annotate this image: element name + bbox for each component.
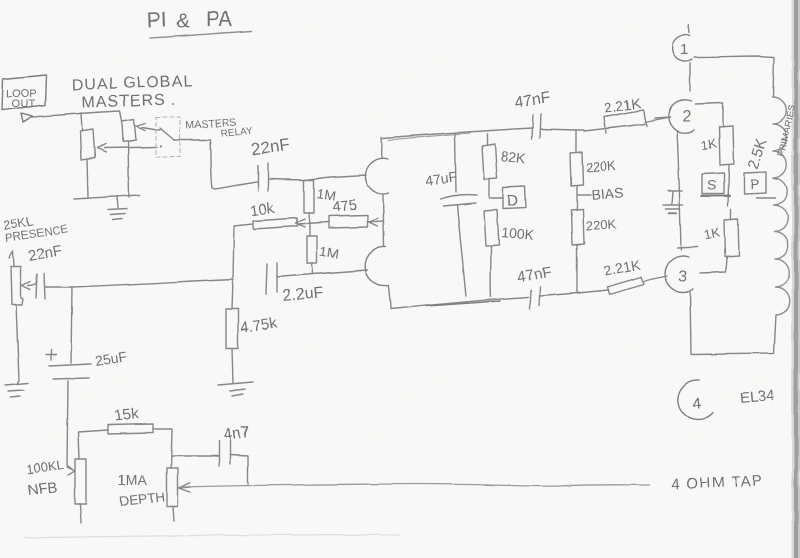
PI tail between triodes xyxy=(383,195,384,246)
label 4 OHM TAP xyxy=(671,473,765,493)
potentiometer master A xyxy=(80,129,95,160)
wire NFB pot bottom xyxy=(80,504,81,523)
svg-text:EL34: EL34 xyxy=(739,387,775,407)
tube V2 xyxy=(668,100,694,133)
pot 100KL NFB xyxy=(75,459,86,504)
cathode line tube2 to tube3 xyxy=(677,131,681,250)
svg-text:&: & xyxy=(176,11,190,33)
wire down to master pot B xyxy=(120,111,122,121)
wire 475 to PI tail xyxy=(368,221,383,222)
svg-text:PI: PI xyxy=(146,8,167,32)
label MASTERS RELAY xyxy=(185,116,253,140)
wire 47nF to 2.21k lower xyxy=(540,290,608,296)
wiper arrow presence xyxy=(22,281,36,289)
capacitor 2.2uF xyxy=(266,263,277,294)
resistor 475 xyxy=(329,215,368,228)
svg-text:S: S xyxy=(707,177,716,193)
capacitor 47nF top xyxy=(532,114,541,139)
resistor 1M upper xyxy=(304,180,314,213)
svg-text:PA: PA xyxy=(206,8,232,31)
box S xyxy=(702,173,724,194)
wire 2.21k to tube 2 xyxy=(645,117,670,122)
wire 15k left to NFB pot xyxy=(78,430,108,459)
capacitor 47uF column xyxy=(455,133,456,192)
wire 25uF to NFB pot xyxy=(67,381,68,465)
wire branch to 4n7 xyxy=(172,455,218,457)
arrowhead at 10k right xyxy=(296,219,305,227)
presence pot 25KL xyxy=(11,266,23,305)
wire loop out to pots xyxy=(33,111,120,117)
wire depth pot bottom xyxy=(173,507,174,521)
bias tap xyxy=(578,194,591,196)
wire 220k lower to bottom rail xyxy=(576,245,578,293)
title PI & PA xyxy=(146,8,232,33)
wire PI top rail xyxy=(382,128,533,138)
label EL34 xyxy=(739,387,775,407)
title underline xyxy=(150,31,252,38)
capacitor 25uF xyxy=(49,364,91,379)
svg-text:D: D xyxy=(507,193,519,210)
tube3 top tick xyxy=(677,247,698,248)
relay dashed box xyxy=(156,117,180,157)
wire cap to 1M node xyxy=(268,179,305,180)
relay contact dot xyxy=(160,145,162,147)
svg-text:3: 3 xyxy=(678,268,687,285)
wire 100k to bottom rail xyxy=(490,246,492,297)
transformer primary coil xyxy=(772,97,790,315)
capacitor 22nF presence xyxy=(36,274,45,299)
resistor 4.75k xyxy=(226,309,238,348)
ground PA xyxy=(663,192,683,213)
svg-text:2.2uF: 2.2uF xyxy=(282,284,324,305)
wire tube3 bottom loop xyxy=(690,291,776,354)
svg-text:MASTERS .: MASTERS . xyxy=(81,91,177,111)
phase inverter triode upper xyxy=(381,137,382,158)
wire presence cap to main node xyxy=(45,279,233,287)
svg-text:475: 475 xyxy=(332,196,359,216)
wire 2.21k to tube 3 xyxy=(644,276,667,281)
wire 4n7 to tap line xyxy=(230,455,248,484)
label PRIMARIES xyxy=(776,104,798,157)
pot 1MA depth xyxy=(167,468,178,507)
resistor 15k xyxy=(108,424,153,434)
wire grid tube2 xyxy=(655,117,670,118)
wire relay to coupling cap xyxy=(174,140,257,189)
label DUAL GLOBAL MASTERS xyxy=(72,73,195,112)
capacitor 25uF polarity plus xyxy=(46,350,56,360)
wire 2.2uF to lower grid xyxy=(277,270,368,277)
wire 10k to 475 node xyxy=(298,222,329,224)
svg-text:15k: 15k xyxy=(114,405,140,424)
svg-text:2: 2 xyxy=(682,108,691,125)
resistor 220k upper xyxy=(570,152,583,186)
label 25KL PRESENCE xyxy=(2,213,69,245)
relay switch xyxy=(160,128,174,140)
resistor 82k xyxy=(486,134,488,145)
wire tube3 plate to 1k lower xyxy=(700,257,727,273)
svg-text:4 OHM TAP: 4 OHM TAP xyxy=(671,473,765,493)
potentiometer master B xyxy=(122,119,136,142)
phase inverter triode lower xyxy=(365,247,389,286)
svg-text:BIAS: BIAS xyxy=(591,184,624,203)
wiper arrow to pot B xyxy=(136,123,160,130)
svg-text:NFB: NFB xyxy=(27,479,59,499)
tube V1 xyxy=(688,25,689,33)
wire node down to 4.75k xyxy=(232,279,233,309)
resistor 1k screen lower xyxy=(724,219,739,257)
loop out jack box xyxy=(2,75,46,110)
resistor 220k lower xyxy=(571,209,584,245)
svg-text:100K: 100K xyxy=(501,224,536,243)
ground masters xyxy=(108,196,127,220)
ground 4.75k xyxy=(218,382,253,396)
wire 82k to D node xyxy=(488,179,490,198)
diode box D xyxy=(489,197,503,199)
svg-text:4: 4 xyxy=(692,396,701,413)
resistor 1M lower xyxy=(307,236,317,263)
svg-text:P: P xyxy=(750,176,759,192)
wire 1k down xyxy=(728,165,731,219)
wire between 220k xyxy=(576,186,578,209)
wire tube1 to transformer xyxy=(694,56,774,96)
svg-text:82K: 82K xyxy=(500,148,527,167)
wire PI bottom rail xyxy=(391,297,529,309)
capacitor 47nF bottom xyxy=(530,287,540,309)
tube V4 xyxy=(678,380,713,420)
resistor 10k xyxy=(253,218,298,229)
paper right edge xyxy=(792,0,800,558)
arrowhead at 475 right xyxy=(369,218,378,226)
resistor 2.21k top xyxy=(584,110,647,133)
wire tube2 plate to 1k xyxy=(695,103,723,126)
faint fold line xyxy=(25,535,400,538)
wires 1M lower xyxy=(310,226,313,274)
box P xyxy=(744,172,766,194)
svg-text:1MA: 1MA xyxy=(118,472,147,488)
svg-text:220K: 220K xyxy=(585,158,617,175)
label 2.5K xyxy=(745,137,771,172)
underline P xyxy=(756,197,776,199)
wire pot A to bus xyxy=(87,160,88,197)
capacitor 22nF masters xyxy=(258,163,268,191)
wire 47nF top to 2.21k xyxy=(541,129,584,130)
wire node down to 25uF xyxy=(71,287,72,363)
presence pot top lead xyxy=(9,251,14,265)
bias column wire xyxy=(575,130,577,152)
wire 4.75k to ground xyxy=(232,348,233,383)
svg-text:220K: 220K xyxy=(585,216,616,233)
svg-text:1: 1 xyxy=(680,41,688,58)
resistor 1k screen upper xyxy=(719,126,734,165)
wire down to master pot A xyxy=(81,113,82,130)
ground bus masters xyxy=(74,195,140,199)
svg-text:1M: 1M xyxy=(319,243,340,262)
wire grid upper triode xyxy=(305,175,366,180)
capacitor 4n7 xyxy=(219,440,230,466)
wiper arrow to pot A xyxy=(97,144,157,152)
wire 15k right to depth pot xyxy=(153,429,172,468)
resistor 100k xyxy=(484,210,499,246)
ground tick PA xyxy=(668,190,682,192)
wire presence pot to ground xyxy=(16,305,19,380)
wiper arrow depth xyxy=(179,483,191,492)
wire node up to 10k xyxy=(233,224,253,279)
svg-text:OUT: OUT xyxy=(12,98,36,110)
wire lower triode to bottom rail xyxy=(389,286,391,309)
wire pot B to bus xyxy=(128,142,129,197)
loop out arrow xyxy=(21,113,33,122)
underline S xyxy=(701,195,730,197)
wire tube1 to tube2 xyxy=(689,63,691,91)
ground presence xyxy=(5,380,28,397)
wiper arrow NFB xyxy=(67,465,75,475)
tube V3 xyxy=(665,256,693,292)
resistor 2.21k lower xyxy=(607,277,644,294)
wire 1M to node xyxy=(309,213,310,226)
wire 4 ohm tap xyxy=(180,484,650,487)
